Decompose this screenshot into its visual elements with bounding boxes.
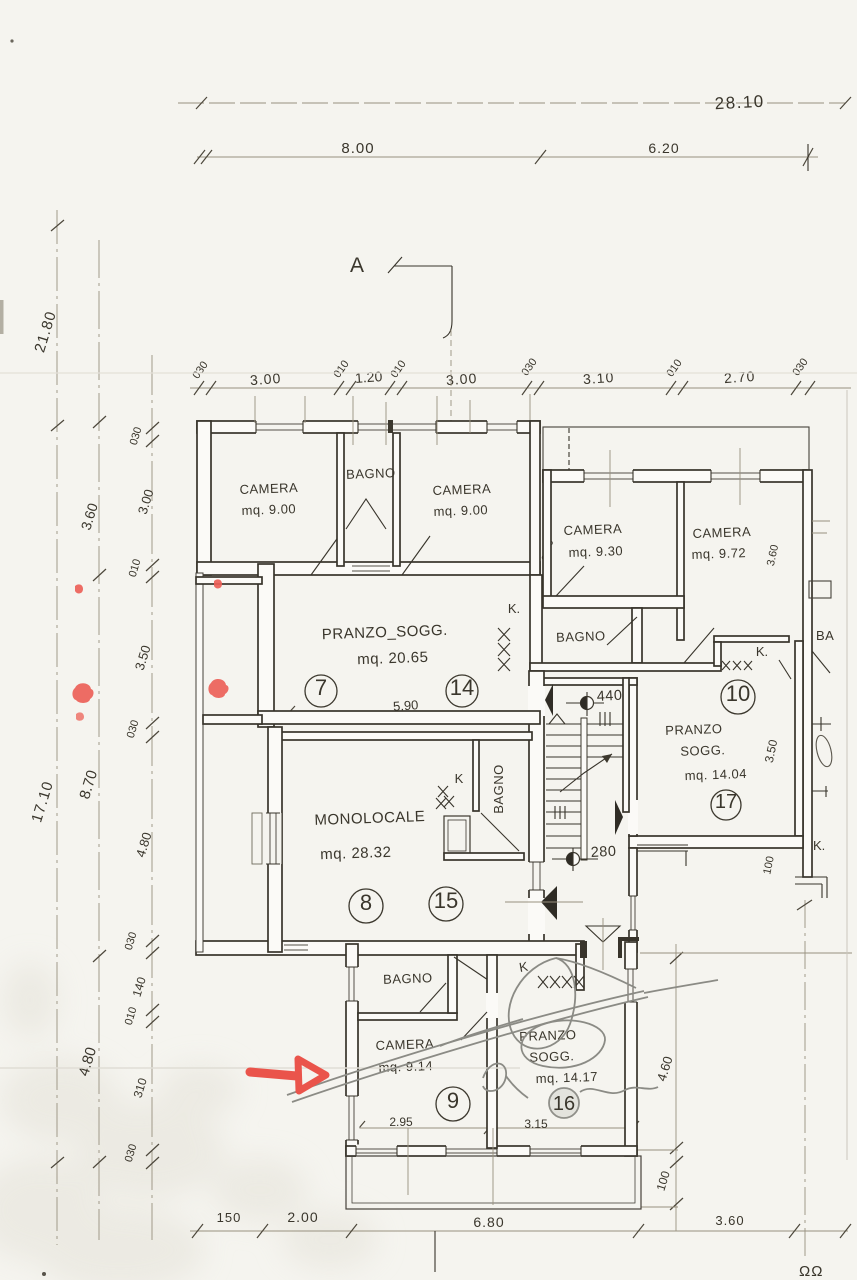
kitchen hatch K unit 7 bbox=[498, 628, 510, 671]
entrance triangle marker bbox=[586, 926, 620, 942]
circled number 15 bbox=[429, 887, 463, 921]
circled number 8 bbox=[349, 889, 383, 923]
right apartment bagno left wall bbox=[530, 575, 542, 671]
window reference ticks above right wall bbox=[551, 448, 740, 562]
overall top dimension line 28.10 bbox=[178, 102, 845, 104]
monolocale top wall bbox=[275, 732, 532, 740]
right outer wall bbox=[803, 470, 812, 877]
stairwell right wall bbox=[623, 678, 629, 812]
sill under bagno bbox=[352, 563, 390, 574]
entry door slash unit 10 bbox=[779, 660, 791, 679]
extension right wall bbox=[625, 942, 637, 1156]
svg-text:K: K bbox=[455, 771, 464, 786]
upper-left block right wall bbox=[530, 421, 540, 575]
svg-text:CAMERA: CAMERA bbox=[563, 521, 622, 538]
extension bottom wall extension tick bbox=[637, 1149, 678, 1151]
terrace bottom extension tick bbox=[641, 1206, 678, 1208]
bagno door V swing bbox=[346, 499, 386, 529]
terrace outline bbox=[346, 1156, 641, 1209]
svg-text:mq. 9.14: mq. 9.14 bbox=[378, 1058, 433, 1075]
red correction blob small 2 bbox=[76, 712, 84, 720]
svg-text:14: 14 bbox=[450, 675, 474, 700]
svg-text:17: 17 bbox=[715, 791, 737, 813]
window opening top wall 2 (double with mullion) bbox=[358, 420, 436, 435]
camera1 / bagno divider wall bbox=[337, 433, 344, 566]
svg-text:K.: K. bbox=[508, 601, 520, 616]
monolocale balcony window bbox=[252, 813, 282, 864]
entrance elbow wall bbox=[620, 939, 639, 958]
upper rooms bottom wall bbox=[197, 562, 540, 575]
left edge scan mark bbox=[0, 300, 4, 334]
building top dimension chain bbox=[190, 387, 851, 389]
monolocale bagno bottom wall bbox=[444, 853, 524, 860]
red arrow head bbox=[298, 1059, 326, 1091]
stair tick marks top bbox=[600, 712, 610, 726]
wall below pranzo 14.04 bottom bbox=[629, 848, 637, 952]
stair walking arrow bbox=[560, 754, 612, 792]
bottom dimension chain bbox=[190, 1230, 848, 1232]
pranzo-sogg 20.65 bottom wall bbox=[258, 711, 540, 724]
black door triangle unit 7 bbox=[545, 684, 553, 716]
svg-text:3.60: 3.60 bbox=[715, 1213, 744, 1228]
right wall exterior tick pair upper bbox=[812, 521, 830, 533]
left outer vertical dimension line 21.80 / 17.10 bbox=[56, 210, 58, 1245]
bagno 9 bottom wall bbox=[358, 1013, 457, 1020]
dashed property line top right block bbox=[568, 428, 570, 480]
svg-text:mq. 9.72: mq. 9.72 bbox=[691, 545, 746, 562]
svg-text:PRANZO: PRANZO bbox=[665, 721, 723, 738]
entry niche left wall unit 10 bbox=[714, 642, 721, 666]
door opening bottom wall right camera bbox=[402, 536, 430, 575]
balcony door opening in bottom wall bbox=[284, 942, 308, 954]
window opening top wall 3 bbox=[487, 420, 517, 435]
third vertical dimension chain bbox=[151, 355, 153, 1240]
pencil circled 16 bbox=[549, 1088, 579, 1118]
svg-text:7: 7 bbox=[315, 675, 327, 700]
svg-text:mq. 9.00: mq. 9.00 bbox=[433, 502, 488, 519]
right edge tick bbox=[797, 900, 812, 910]
stair chevron bbox=[549, 714, 565, 724]
right edge door slash bbox=[812, 651, 830, 673]
circled number 7 bbox=[305, 675, 337, 707]
stairwell top wall bbox=[540, 678, 637, 685]
window reference ticks above top wall bbox=[255, 394, 530, 445]
anteroom door swing bbox=[454, 957, 494, 984]
svg-text:BA: BA bbox=[816, 628, 834, 643]
right lower vertical reference line bbox=[804, 900, 806, 1258]
svg-text:2.70: 2.70 bbox=[724, 368, 756, 386]
pencil scribble: stroke to diagonal bbox=[556, 958, 636, 988]
svg-text:440: 440 bbox=[596, 688, 623, 705]
scan noise patches lower left bbox=[0, 962, 378, 1280]
camera 9.30 / 9.72 divider wall bbox=[677, 482, 684, 640]
balcony strip bottom wall bbox=[203, 715, 262, 724]
second vertical dimension line 3.60 / 8.70 / 4.80 bbox=[98, 240, 100, 1240]
window opening right top wall 1 bbox=[584, 469, 633, 484]
svg-text:28.10: 28.10 bbox=[714, 92, 765, 114]
svg-text:8: 8 bbox=[360, 890, 372, 915]
terrace ticks bbox=[408, 1128, 493, 1205]
svg-text:16: 16 bbox=[553, 1093, 575, 1115]
monolocale closet box bbox=[444, 816, 470, 855]
top-right balcony outline bbox=[543, 427, 809, 470]
svg-text:280: 280 bbox=[590, 844, 617, 861]
scan crease line 2 bbox=[0, 372, 857, 374]
svg-text:mq. 9.00: mq. 9.00 bbox=[241, 501, 296, 518]
pencil scribble: tall loop bbox=[509, 958, 576, 1049]
top dimension line 8.00 / 6.20 bbox=[197, 156, 818, 158]
kitchen hatch unit 10 bbox=[722, 661, 752, 670]
svg-text:BAGNO: BAGNO bbox=[491, 764, 506, 813]
black door triangle unit 17 bbox=[615, 800, 623, 835]
window in that wall bbox=[628, 896, 639, 930]
red correction blob big left bbox=[72, 683, 93, 703]
pencil scribble: wave near 16 bbox=[580, 1087, 658, 1093]
balcony strip top wall bbox=[196, 577, 262, 584]
svg-text:K.: K. bbox=[756, 644, 768, 659]
stair treads right flight bbox=[587, 724, 623, 757]
window bottom wall 2 bbox=[446, 1145, 497, 1158]
kitchen hatch K monolocale bbox=[436, 786, 454, 809]
right edge wall elbow bbox=[795, 877, 827, 898]
svg-text:3.15: 3.15 bbox=[524, 1117, 548, 1131]
bagno / camera2 divider wall bbox=[393, 433, 400, 566]
svg-text:1.20: 1.20 bbox=[355, 368, 384, 386]
window extension right wall bbox=[624, 969, 639, 1002]
svg-text:mq. 14.04: mq. 14.04 bbox=[684, 766, 747, 783]
bagno 9 door swing bbox=[420, 983, 446, 1012]
window bottom wall 1 bbox=[356, 1145, 397, 1158]
door gap stair to pranzo 14.04 bbox=[628, 800, 638, 834]
svg-text:mq. 9.30: mq. 9.30 bbox=[568, 543, 623, 560]
upper-left block left wall bbox=[197, 421, 211, 575]
red arrow shaft bbox=[250, 1072, 297, 1076]
svg-text:ΩΩ: ΩΩ bbox=[799, 1263, 823, 1280]
monolocale left wall bbox=[268, 727, 282, 952]
right wall exterior stub mid with cross tick bbox=[812, 717, 831, 731]
right apartment bagno bottom wall bbox=[530, 663, 721, 671]
monolocale bottom wall / main block bottom bbox=[196, 941, 584, 955]
svg-text:CAMERA: CAMERA bbox=[432, 481, 491, 498]
symbol 280 bbox=[552, 858, 598, 860]
black door triangle monolocale bbox=[541, 886, 557, 920]
pencil scribble: curl bbox=[483, 1064, 506, 1092]
interior dim line 2.95 / 3.15 bbox=[359, 1127, 634, 1129]
bottom left dot bbox=[42, 1272, 46, 1276]
svg-text:CAMERA: CAMERA bbox=[239, 480, 298, 497]
svg-text:6.80: 6.80 bbox=[473, 1214, 504, 1230]
right wall exterior stub lower bbox=[812, 786, 828, 797]
exterior niche box right side bbox=[809, 581, 831, 598]
svg-text:K.: K. bbox=[813, 838, 825, 853]
red correction blob small 1 bbox=[75, 584, 83, 593]
svg-text:3.10: 3.10 bbox=[583, 369, 615, 387]
window bottom wall 3 bbox=[530, 1145, 581, 1158]
pencil scribble: long double diagonal bbox=[287, 991, 644, 1095]
svg-text:BAGNO: BAGNO bbox=[383, 970, 433, 987]
svg-text:9: 9 bbox=[447, 1088, 459, 1113]
svg-text:mq. 28.32: mq. 28.32 bbox=[320, 844, 392, 863]
svg-text:BAGNO: BAGNO bbox=[556, 628, 606, 645]
circled number 17 bbox=[711, 790, 741, 820]
bagno 9 right wall bbox=[448, 955, 457, 1013]
svg-text:BAGNO: BAGNO bbox=[346, 465, 396, 482]
svg-text:mq. 14.17: mq. 14.17 bbox=[535, 1069, 598, 1086]
flue wall bbox=[576, 944, 584, 990]
stair tick marks bottom bbox=[555, 806, 565, 819]
svg-text:A: A bbox=[350, 254, 364, 277]
dim line right of entrance bbox=[640, 952, 852, 954]
stair / pranzo divider wall bbox=[629, 678, 637, 836]
monolocale bagno divider bbox=[473, 740, 479, 811]
window extension left wall 1 bbox=[345, 967, 360, 1001]
left outer thin wall bbox=[196, 573, 203, 952]
circled number 9 bbox=[436, 1087, 470, 1121]
wall jamb at entrance left bbox=[580, 941, 587, 958]
monolocale entry opening bbox=[528, 898, 545, 934]
door gap divider bbox=[461, 993, 498, 1040]
entry niche top wall unit 10 bbox=[714, 636, 789, 642]
camera 9.30 door swing bbox=[556, 566, 584, 596]
svg-text:6.20: 6.20 bbox=[648, 140, 679, 156]
extension left wall bbox=[346, 944, 358, 1156]
circled number 10 bbox=[721, 680, 755, 714]
svg-text:CAMERA: CAMERA bbox=[692, 524, 751, 541]
pencil scribble: wide loop bbox=[521, 1020, 605, 1067]
scan crease line bbox=[0, 1067, 520, 1069]
extension rooms bottom wall bbox=[346, 1146, 637, 1156]
window opening right top wall 2 bbox=[711, 469, 760, 484]
flue hatch xxxx bbox=[538, 976, 584, 988]
right apartment bagno door swing bbox=[607, 617, 637, 645]
window extension left wall 2 bbox=[345, 1096, 360, 1140]
svg-text:2.00: 2.00 bbox=[287, 1209, 318, 1225]
right apartment bagno right wall bbox=[632, 608, 642, 663]
stair treads left flight bbox=[546, 724, 582, 848]
section line at bottom bbox=[434, 1231, 436, 1272]
svg-text:mq. 20.65: mq. 20.65 bbox=[357, 649, 429, 668]
pranzo-sogg 20.65 left wall bbox=[258, 564, 274, 727]
svg-text:150: 150 bbox=[217, 1210, 242, 1225]
svg-text:SOGG.: SOGG. bbox=[529, 1048, 575, 1065]
scan edge faint line bbox=[846, 390, 848, 1160]
svg-text:2.95: 2.95 bbox=[389, 1115, 413, 1129]
step stub right of wall bbox=[637, 845, 688, 866]
upper-left block top wall bbox=[197, 421, 540, 433]
right vertical dimension line 4.60 / 100 bbox=[675, 944, 677, 1231]
window monolocale right wall bbox=[528, 862, 546, 890]
circled number 14 bbox=[446, 675, 478, 707]
red correction blob small 3 bbox=[214, 579, 222, 588]
camera 9 / pranzo 16 divider bbox=[487, 955, 497, 1148]
entrance centerline vertical bbox=[602, 918, 604, 970]
red correction blob big right bbox=[208, 679, 228, 698]
door opening bottom wall left camera bbox=[311, 536, 339, 575]
camera 9.72 door swing bbox=[684, 628, 714, 663]
monolocale bagno door swing bbox=[481, 813, 519, 851]
stairwell left wall / monolocale right wall bbox=[529, 671, 544, 952]
camera 9.30 bottom wall bbox=[543, 596, 684, 608]
left edge speck bbox=[10, 39, 13, 42]
right edge partial circle bbox=[813, 734, 834, 768]
symbol 440 bbox=[566, 702, 604, 704]
door gap to unit 7 bbox=[528, 686, 545, 716]
stair stringer bbox=[581, 718, 587, 860]
svg-text:8.00: 8.00 bbox=[341, 140, 374, 157]
svg-text:SOGG.: SOGG. bbox=[680, 742, 726, 759]
svg-text:10: 10 bbox=[726, 681, 750, 706]
camera 9.30 left wall bbox=[543, 470, 551, 601]
entry centerline bbox=[505, 901, 583, 903]
pranzo sogg 14.04 bottom wall bbox=[629, 836, 803, 848]
svg-text:15: 15 bbox=[434, 888, 458, 913]
pranzo sogg 14.04 inner right wall bbox=[795, 641, 803, 836]
top-right block room top wall bbox=[543, 470, 807, 482]
window opening top wall 1 bbox=[256, 420, 303, 435]
